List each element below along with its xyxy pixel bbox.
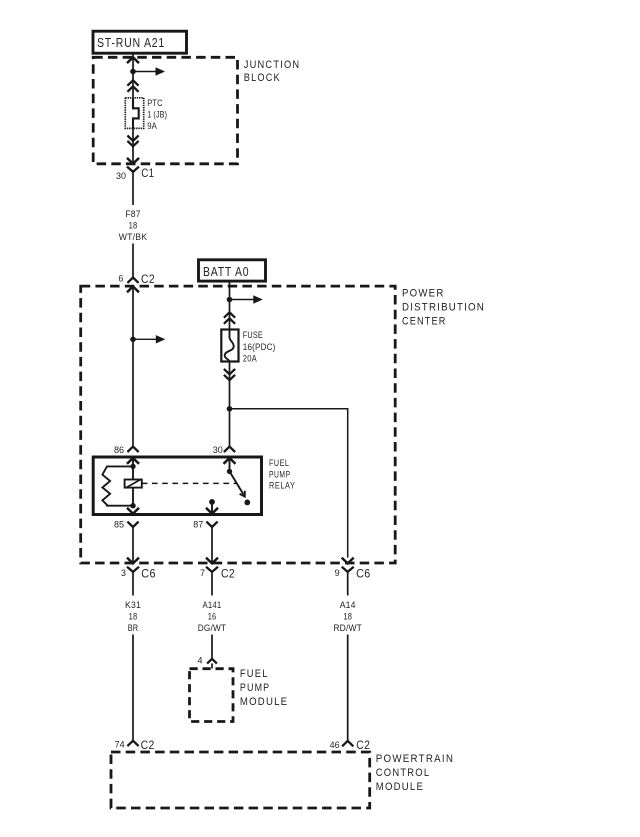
- connector arrow into PDC at C2: [127, 287, 139, 293]
- connector C2 pin 46: [330, 738, 371, 752]
- svg-text:30: 30: [116, 171, 126, 181]
- connector C1 pin 30: [116, 166, 154, 181]
- svg-text:74: 74: [115, 740, 125, 750]
- wire relay pin 30 to switch pivot: [229, 458, 231, 471]
- svg-text:RELAY: RELAY: [269, 480, 296, 490]
- relay pin 87 contact: [206, 499, 218, 514]
- wire pin 87 to C2: [211, 527, 213, 563]
- svg-text:POWERTRAIN: POWERTRAIN: [376, 753, 454, 765]
- svg-text:9A: 9A: [147, 121, 157, 131]
- relay switch pivot dot: [227, 469, 232, 474]
- fuel pump module label: [240, 668, 288, 708]
- svg-text:JUNCTION: JUNCTION: [244, 59, 300, 71]
- svg-text:F87: F87: [125, 209, 140, 219]
- connector arrows out of PDC: [127, 558, 354, 564]
- fuel pump relay box: [93, 457, 261, 515]
- svg-text:PUMP: PUMP: [240, 682, 270, 694]
- node BATT A0: [199, 260, 266, 281]
- fuel pump relay label: [269, 458, 296, 490]
- svg-text:20A: 20A: [243, 353, 257, 363]
- power distribution center enclosure: [81, 286, 396, 563]
- connector pin 87: [193, 520, 217, 530]
- relay switch blade: [230, 471, 251, 505]
- relay linkage dashed line: [142, 482, 237, 484]
- connector C6 pin 3: [121, 567, 156, 581]
- svg-text:7: 7: [200, 568, 205, 578]
- junction block label: [244, 59, 300, 84]
- junction node dot (coil bottom): [130, 503, 135, 508]
- svg-text:POWER: POWER: [402, 288, 445, 300]
- wire ST-RUN A21 to PTC: [132, 53, 134, 98]
- svg-text:86: 86: [114, 445, 124, 455]
- wire C6 to K31 label: [132, 578, 134, 596]
- junction node dot: [227, 406, 233, 412]
- svg-text:BATT A0: BATT A0: [203, 265, 249, 279]
- svg-text:WT/BK: WT/BK: [119, 232, 147, 242]
- wire A14 to connector C2 pin 46: [347, 635, 349, 741]
- svg-text:C2: C2: [141, 272, 155, 286]
- branch arrow (other circuits): [230, 295, 263, 303]
- relay pin 86 connector: [114, 445, 139, 464]
- svg-text:46: 46: [330, 740, 340, 750]
- svg-text:16(PDC): 16(PDC): [243, 342, 276, 352]
- wire label K31 18 BR: [125, 600, 141, 633]
- svg-text:K31: K31: [125, 600, 141, 610]
- connector C6 pin 9: [335, 567, 371, 581]
- svg-text:FUSE: FUSE: [243, 330, 263, 340]
- svg-text:18: 18: [129, 221, 138, 231]
- svg-text:1 (JB): 1 (JB): [147, 109, 167, 119]
- connector arrow into ST-RUN A21: [127, 57, 139, 63]
- powertrain control module enclosure: [111, 752, 370, 808]
- junction node dot: [130, 337, 136, 343]
- svg-text:3: 3: [121, 568, 126, 578]
- svg-text:A14: A14: [340, 600, 356, 610]
- svg-text:DG/WT: DG/WT: [198, 623, 227, 633]
- svg-text:FUEL: FUEL: [269, 458, 289, 468]
- svg-text:16: 16: [208, 611, 217, 621]
- node ST-RUN A21: [93, 31, 187, 53]
- wire BATT A0 to fuse: [229, 281, 231, 329]
- junction node dot: [227, 297, 233, 303]
- svg-text:CENTER: CENTER: [402, 316, 447, 328]
- junction block enclosure: [93, 57, 237, 164]
- svg-text:BR: BR: [128, 623, 139, 633]
- wire branch to connector C6 pin 9: [230, 409, 348, 558]
- wire C2 to A141 label: [211, 578, 213, 596]
- in-line connector chevrons: [224, 369, 235, 380]
- relay coil box: [125, 480, 142, 488]
- wire C2 to relay pin 86: [132, 287, 134, 447]
- wire label A14 18 RD/WT: [333, 600, 362, 633]
- svg-text:FUEL: FUEL: [240, 668, 269, 680]
- connector pin 4: [197, 656, 216, 669]
- svg-text:4: 4: [197, 656, 202, 666]
- connector arrow out of junction block: [127, 158, 139, 164]
- svg-text:C1: C1: [141, 166, 154, 180]
- svg-text:ST-RUN A21: ST-RUN A21: [97, 36, 165, 50]
- svg-text:85: 85: [114, 520, 124, 530]
- svg-text:DISTRIBUTION: DISTRIBUTION: [402, 302, 485, 314]
- wire K31 to connector C2 pin 74: [132, 635, 134, 741]
- PTC 1 (JB) 9A: [125, 98, 167, 131]
- svg-text:MODULE: MODULE: [240, 696, 288, 708]
- relay coil resistor: [102, 466, 133, 505]
- svg-text:CONTROL: CONTROL: [376, 767, 431, 779]
- branch arrow (other circuits): [133, 335, 165, 343]
- svg-text:87: 87: [193, 520, 203, 530]
- connector C2 pin 74: [115, 738, 155, 752]
- connector pin 85: [114, 520, 139, 530]
- wire F87 to connector C2: [132, 244, 134, 278]
- svg-text:RD/WT: RD/WT: [333, 623, 362, 633]
- relay pin 85 exit arrow: [127, 508, 139, 514]
- in-line connector chevrons: [224, 312, 235, 324]
- svg-text:C6: C6: [141, 567, 156, 581]
- fuse 16 (PDC) 20A: [221, 330, 275, 364]
- connector C2 pin 7: [200, 567, 235, 581]
- wire label F87 18 WT/BK: [119, 209, 147, 242]
- fuel pump module enclosure: [190, 669, 234, 722]
- junction node dot: [130, 69, 136, 75]
- wire PTC to connector C1: [132, 128, 134, 162]
- svg-text:C6: C6: [356, 567, 371, 581]
- svg-text:PUMP: PUMP: [269, 469, 291, 479]
- svg-text:18: 18: [343, 611, 352, 621]
- wire A141 to connector pin 4: [211, 635, 213, 659]
- connector C2 pin 6: [118, 272, 155, 286]
- svg-text:6: 6: [118, 274, 123, 284]
- in-line connector chevrons: [127, 136, 138, 147]
- svg-text:9: 9: [335, 568, 340, 578]
- powertrain control module label: [376, 753, 454, 793]
- svg-text:C2: C2: [356, 738, 370, 752]
- wire fuse to relay pin 30: [229, 361, 231, 446]
- power distribution center label: [402, 288, 485, 328]
- wire C6 to A14 label: [347, 578, 349, 596]
- svg-text:30: 30: [213, 445, 223, 455]
- relay coil wire pin 86 to pin 85: [132, 458, 134, 506]
- svg-text:BLOCK: BLOCK: [244, 72, 281, 84]
- branch arrow (other circuits): [133, 67, 165, 75]
- wire label A141 16 DG/WT: [198, 600, 227, 633]
- wire C1 to C2 (upper segment): [132, 179, 134, 206]
- svg-text:PTC: PTC: [147, 98, 163, 108]
- in-line connector chevrons: [127, 80, 138, 92]
- junction node dot (coil top): [130, 464, 135, 469]
- svg-text:MODULE: MODULE: [376, 781, 424, 793]
- relay pin 30 connector: [213, 445, 236, 464]
- svg-text:A141: A141: [203, 600, 222, 610]
- svg-text:C2: C2: [221, 567, 235, 581]
- svg-text:C2: C2: [141, 738, 155, 752]
- wire pin 85 to C6: [132, 527, 134, 563]
- svg-text:18: 18: [129, 611, 138, 621]
